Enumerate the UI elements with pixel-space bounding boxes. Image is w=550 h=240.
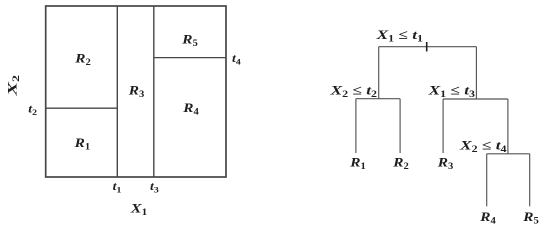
tree root label X1 <= t1	[375, 28, 423, 44]
label R4	[182, 101, 199, 117]
svg-text:R1: R1	[349, 156, 366, 172]
axis label X1	[130, 202, 148, 218]
svg-text:X1 ≤ t1: X1 ≤ t1	[375, 28, 423, 44]
label R5	[181, 33, 198, 49]
leaf label R2	[392, 156, 409, 172]
svg-text:X1 ≤ t3: X1 ≤ t3	[427, 83, 475, 99]
split line t2 (horizontal)	[46, 107, 118, 109]
label t2	[28, 101, 37, 116]
wire to leaf R5	[529, 154, 531, 207]
svg-text:R1: R1	[74, 136, 91, 152]
leaf label R1	[349, 156, 366, 172]
node label X2 <= t4	[459, 138, 507, 154]
split line t4 (horizontal)	[154, 57, 226, 59]
label R1	[74, 136, 91, 152]
label t4	[232, 51, 241, 66]
svg-text:R4: R4	[479, 210, 496, 226]
wire to leaf R1	[355, 99, 357, 153]
svg-text:R3: R3	[128, 84, 145, 100]
svg-text:X2 ≤ t4: X2 ≤ t4	[459, 138, 507, 154]
node label X1 <= t3	[427, 83, 475, 99]
split line t3 (vertical)	[153, 6, 155, 177]
label R2	[74, 51, 91, 67]
svg-text:R5: R5	[181, 33, 198, 49]
partition outer square	[46, 6, 226, 177]
leaf label R3	[437, 156, 454, 172]
split line t1 (vertical)	[116, 6, 118, 177]
tree root tick	[426, 42, 428, 52]
svg-text:R2: R2	[74, 51, 91, 67]
label t1	[113, 179, 122, 194]
svg-text:X2: X2	[5, 75, 21, 97]
tree root bar	[379, 46, 477, 48]
svg-text:t3: t3	[150, 179, 159, 194]
svg-text:X1: X1	[130, 202, 148, 218]
wire root to right child	[475, 47, 477, 99]
leaf label R5	[522, 210, 539, 226]
wire to leaf R2	[399, 99, 401, 153]
label t3	[150, 179, 159, 194]
svg-text:t4: t4	[232, 51, 241, 66]
svg-text:t2: t2	[28, 101, 37, 116]
svg-text:R5: R5	[522, 210, 539, 226]
svg-text:R3: R3	[437, 156, 454, 172]
node label X2 <= t2	[329, 83, 377, 99]
wire to leaf R3	[442, 99, 444, 153]
right child bar	[443, 98, 508, 100]
wire root to left child	[378, 47, 380, 99]
left child bar	[356, 98, 400, 100]
svg-text:R2: R2	[392, 156, 409, 172]
axis label X2 (rotated)	[5, 75, 21, 97]
label R3	[128, 84, 145, 100]
wire to node t4	[507, 99, 509, 154]
svg-text:R4: R4	[182, 101, 199, 117]
level3 bar	[487, 153, 530, 155]
svg-text:t1: t1	[113, 179, 122, 194]
svg-text:X2 ≤ t2: X2 ≤ t2	[329, 83, 377, 99]
leaf label R4	[479, 210, 496, 226]
wire to leaf R4	[486, 154, 488, 207]
